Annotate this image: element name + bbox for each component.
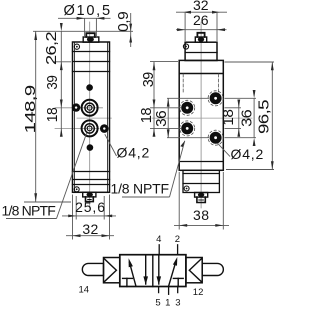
front top cap button (86, 33, 95, 37)
dim line 148,9 vertical (35, 31, 37, 202)
arrows 39 left (inside) (153, 62, 156, 70)
side bottom nub blob (198, 193, 204, 197)
dim line 36 right (253, 98, 255, 137)
ext line bottom y202 (24, 201, 71, 203)
arrows 36 left (inside) (167, 98, 170, 106)
dim line 0,9 vertical (130, 13, 132, 47)
side port upper-left (180, 100, 195, 115)
side flange band line y161 (179, 161, 223, 163)
left actuator wedge (104, 259, 116, 282)
front section line y184.8 (73, 184, 110, 186)
front dot upper (86, 84, 93, 91)
svg-text:32: 32 (82, 221, 98, 237)
arrows 32 side (inside) (183, 11, 191, 14)
svg-text:148,9: 148,9 (23, 85, 39, 134)
svg-text:Ø4,2: Ø4,2 (231, 146, 265, 162)
ext line cap top y31.2 (33, 30, 133, 32)
svg-text:36: 36 (240, 109, 256, 126)
front bottom nub blob (87, 192, 93, 196)
arrowhead leader NPTF side (180, 141, 185, 147)
svg-text:2: 2 (175, 234, 180, 245)
svg-text:Ø4,2: Ø4,2 (117, 145, 151, 161)
centerline vertical front (89, 22, 91, 208)
right plunger capsule (202, 263, 223, 275)
svg-text:1: 1 (165, 297, 170, 308)
svg-text:Ø10,5: Ø10,5 (64, 3, 112, 19)
port ext stubs left pair (150, 107, 181, 109)
side bottom nub button (197, 197, 205, 202)
side lower section line y173.5 (183, 173, 219, 175)
leader front 1/8 NPTF (57, 133, 87, 218)
svg-text:26: 26 (193, 12, 209, 28)
arrowhead left diagonal (up) (129, 258, 133, 267)
leader side 1/8 NPTF (170, 141, 185, 197)
svg-text:4: 4 (156, 234, 161, 245)
svg-text:1/8 NPTF: 1/8 NPTF (2, 203, 56, 219)
centerline vertical side (200, 22, 202, 208)
svg-text:0,9: 0,9 (116, 11, 132, 31)
left cell diagonal arrow (130, 263, 136, 287)
port ext stubs right pair (to left for 36 dim) (167, 97, 209, 99)
front bottom nub button (86, 197, 94, 202)
ext lines 25,6 (75, 196, 77, 220)
arrows 18 right (outside) (237, 100, 240, 108)
right cell blocked port T (173, 277, 183, 279)
dim line 36 left (167, 98, 169, 137)
svg-text:39: 39 (45, 75, 61, 89)
front body outline (73, 42, 110, 192)
svg-text:39: 39 (141, 72, 157, 87)
ext stub y62 left (150, 60, 178, 62)
arrows 38 (inside) (179, 224, 187, 227)
side top-left screw (183, 44, 188, 49)
side cap button (197, 33, 204, 37)
side flange band bottom y73.4 (179, 73, 223, 75)
front cap dark blob (87, 37, 94, 42)
dim line 25,6 (62, 215, 116, 217)
side main body (179, 60, 223, 170)
ext lines 38 (178, 172, 180, 230)
front bottom nub collar (83, 192, 96, 197)
right cell down-flow line (158, 255, 160, 284)
svg-text:3: 3 (175, 297, 180, 308)
front port 2 (lower, concentric) (82, 120, 98, 136)
arrows 26 side (outside) (177, 28, 185, 31)
side bottom nub collar (195, 193, 208, 198)
arrows 0,9 (outside, converge) (129, 24, 132, 32)
left plunger capsule (82, 263, 103, 275)
ext line y62 left (54, 61, 71, 63)
svg-text:14: 14 (79, 284, 90, 295)
left cell down-flow line (145, 255, 147, 284)
side hidden dashes below flange (182, 74, 184, 92)
dim line 26,2/39/18 vertical (60, 31, 62, 136)
front left side port (filled) (72, 103, 80, 111)
arrows 32 front (inside) (73, 234, 81, 237)
ext lines O10,5 (84, 18, 86, 36)
side port lower-right (208, 130, 223, 145)
arrowhead right diagonal (up) (173, 257, 177, 266)
arrows 36 right (outside) (253, 90, 256, 98)
svg-text:38: 38 (193, 207, 210, 223)
front section line y61.5 (73, 61, 110, 63)
svg-text:26,2: 26,2 (44, 32, 60, 65)
dim line 38 (174, 224, 229, 226)
port stub 4 (158, 245, 160, 255)
side lower section line y183.8 (183, 183, 219, 185)
front section line y171.5 (73, 171, 110, 173)
left actuator box (104, 258, 120, 283)
port ext stubs to right side dims (225, 97, 257, 99)
front right side port (filled) (100, 124, 109, 133)
front dot lower (87, 144, 94, 151)
valve box divider (152, 255, 154, 287)
side bottom screw (184, 186, 189, 191)
leader front O4,2 (105, 134, 117, 156)
dim line O10,5 horizontal (58, 17, 111, 19)
front body inner wall lines (74, 42, 76, 192)
leader side O4,2 (218, 143, 230, 156)
port stub 3 (177, 287, 179, 293)
front top-left screw (74, 44, 79, 49)
port stub 5 (158, 287, 160, 293)
side lower section (183, 170, 219, 192)
side port lower-left (180, 121, 195, 136)
svg-text:5: 5 (155, 297, 160, 308)
side narrow section line y52 (185, 52, 217, 54)
dim line 39+18 left (153, 62, 155, 137)
centerline mid horizontal side (152, 117, 252, 119)
front port 1 (upper, concentric) (82, 100, 98, 116)
arrow at port1 line (down) (60, 100, 63, 108)
front section line y51 (73, 51, 110, 53)
ext stub y169.5 right (226, 169, 274, 171)
left cell blocked port T (123, 277, 133, 279)
arrows 25,6 (outside) (68, 215, 76, 218)
front top cap collar (83, 37, 99, 42)
svg-text:18: 18 (221, 109, 237, 125)
svg-text:25,6: 25,6 (75, 199, 106, 215)
svg-text:36: 36 (154, 110, 170, 126)
dim line 26 side (176, 29, 227, 31)
arrows 26,2 (outside) (60, 23, 63, 31)
arrowhead right downflow (157, 276, 162, 285)
port stub 2 (177, 245, 179, 255)
arrows O10,5 (outside) (77, 17, 85, 20)
right actuator wedge (189, 259, 201, 282)
side narrow top section (185, 42, 217, 60)
ext stub y62 right (225, 61, 275, 63)
arrows 96,5 (inside) (271, 62, 274, 70)
side cap blob (198, 37, 204, 42)
front bottom-left screw (74, 187, 79, 192)
arrow below port2 line (up) (60, 128, 63, 136)
svg-text:96,5: 96,5 (257, 100, 273, 134)
svg-text:18: 18 (45, 107, 61, 122)
arrowhead left downflow (143, 276, 148, 285)
right cell diagonal arrow (169, 261, 177, 287)
svg-text:1/8 NPTF: 1/8 NPTF (111, 181, 169, 197)
dim line 32 side (176, 11, 227, 13)
svg-text:18: 18 (139, 108, 155, 124)
side port upper-right (208, 91, 223, 106)
centerline mid horizontal (77, 117, 112, 119)
dim line 32 front (66, 235, 114, 237)
side cap collar (195, 37, 206, 42)
arrow 18 left bottom (outside up) (153, 128, 156, 136)
dim line 18 right (238, 100, 240, 137)
centerline port1 horizontal (55, 107, 103, 109)
right actuator box (186, 258, 202, 283)
dim line 96,5 right (271, 62, 273, 170)
port stub 1 (168, 287, 170, 295)
arrows 148,9 (34, 31, 37, 40)
centerline port2 horizontal (55, 127, 99, 129)
front section line y179.3 (73, 179, 110, 181)
ext lines 26 (184, 13, 186, 41)
ext lines 32 front (72, 195, 74, 240)
svg-text:12: 12 (193, 287, 204, 298)
valve main box (120, 255, 186, 287)
front section line y71.5 (73, 71, 110, 73)
